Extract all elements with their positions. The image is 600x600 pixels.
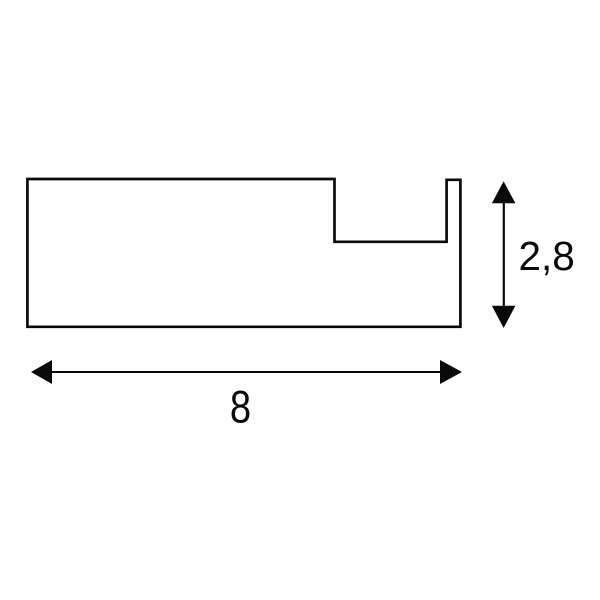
height dimension arrow [492, 181, 516, 328]
profile outline [27, 179, 460, 327]
svg-text:8: 8 [230, 381, 251, 432]
svg-text:2,8: 2,8 [519, 233, 575, 279]
width dimension arrow [31, 360, 462, 384]
